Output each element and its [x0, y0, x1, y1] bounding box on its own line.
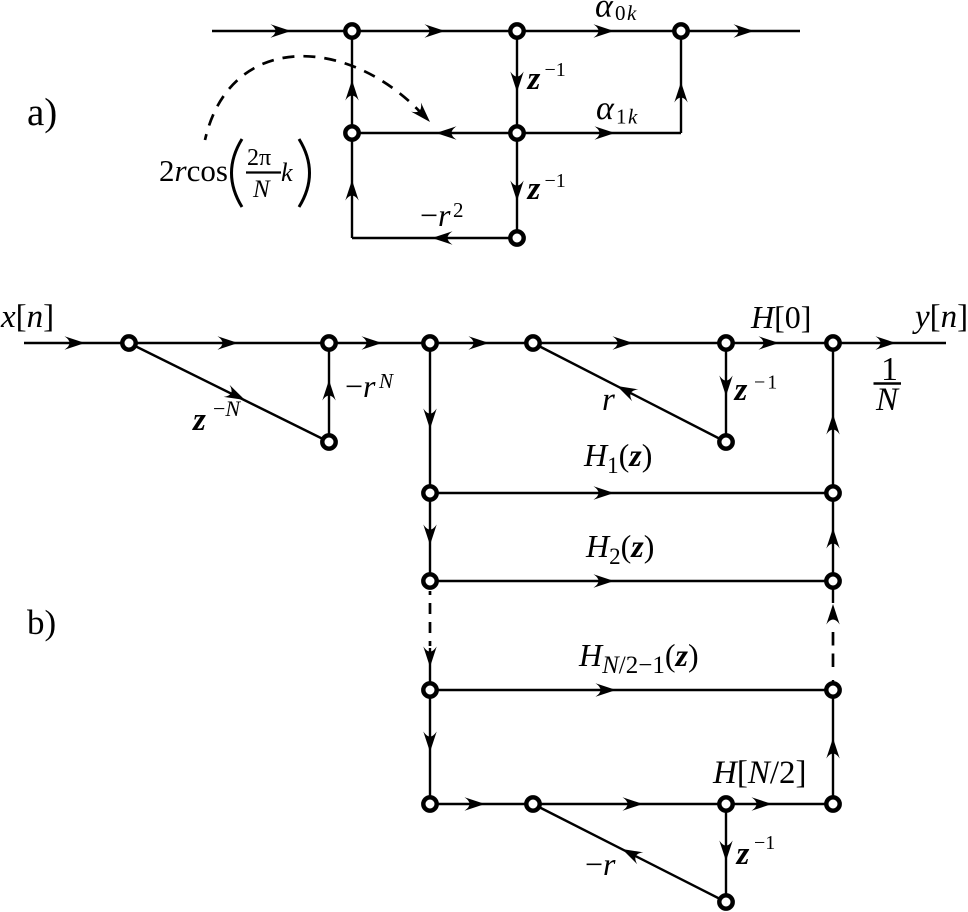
node b9 (H1 input): [423, 486, 436, 499]
svg-text:b): b): [27, 603, 56, 642]
node b15 (bottom row left): [423, 797, 436, 810]
node b13 (H_{N/2-1} input): [423, 683, 436, 696]
svg-text:z: z: [736, 836, 750, 872]
svg-text:2π: 2π: [247, 145, 271, 171]
wire: left column H1 to H2: [423, 493, 436, 581]
dashed coefficient pointer arc: [205, 56, 435, 140]
node b7 (z^-N delay output): [322, 435, 335, 448]
wire: main horizontal line of (b): [24, 336, 946, 349]
svg-text:−N: −N: [213, 396, 241, 421]
svg-text:z: z: [734, 372, 748, 408]
svg-text:−r: −r: [420, 197, 451, 233]
svg-text:H[0]: H[0]: [750, 299, 811, 335]
wire: vertical z^-1 branch (H[0] section): [719, 343, 732, 442]
wire: left column H_{N/2-1} to bottom row: [423, 690, 436, 804]
svg-text:α: α: [596, 90, 615, 127]
wire: vertical left corner up to D: [345, 133, 358, 238]
svg-text:−1: −1: [754, 372, 779, 394]
svg-text:α: α: [595, 0, 614, 25]
wire: vertical B to E (z^-1 branch): [510, 31, 523, 133]
svg-text:2rcos: 2rcos: [159, 153, 228, 188]
svg-text:z: z: [527, 61, 541, 97]
node b1 (input node): [122, 336, 135, 349]
node B: [510, 24, 523, 37]
wire: right column H2 to H1: [826, 493, 839, 581]
svg-text:H[N/2]: H[N/2]: [712, 755, 807, 791]
coefficient label 2rcos(2pi/N k): [159, 139, 310, 207]
wire: bottom row (H[N/2] section): [430, 797, 833, 810]
node b16 (H[N/2] resonator input): [526, 797, 539, 810]
svg-text:HN/2−1(z): HN/2−1(z): [578, 637, 699, 679]
node b11 (H2 input): [423, 574, 436, 587]
wire: right column dashed continuation above H_{N/2-1}: [826, 581, 839, 690]
svg-text:−r: −r: [345, 368, 376, 404]
wire: vertical D up to A: [345, 31, 358, 133]
node b8 (H0 delay output): [719, 435, 732, 448]
wire: left column dashed continuation below H2: [423, 591, 436, 690]
wire: vertical E to F (second z^-1 branch): [510, 133, 523, 238]
svg-text:H2(z): H2(z): [585, 528, 654, 569]
node b17 (H[N/2] sum node): [719, 797, 732, 810]
wire: right column bottom row up to H_{N/2-1}: [826, 690, 839, 804]
svg-text:2: 2: [453, 198, 464, 222]
wire: z^-N diagonal branch: [129, 343, 329, 442]
wire: vertical z^-1 branch (H[N/2] section): [719, 804, 732, 902]
svg-text:y[n]: y[n]: [912, 299, 968, 335]
svg-text:N: N: [875, 382, 900, 418]
node b2 (comb sum node): [322, 336, 335, 349]
wire: vertical -r^N branch up: [322, 343, 335, 442]
node b5 (H0 sum node): [719, 336, 732, 349]
node b3 (left column top): [423, 336, 436, 349]
wire: right column from H1 row up to main line: [826, 343, 839, 493]
wire: left column from main line down to H1 row: [423, 343, 436, 493]
svg-text:a): a): [27, 91, 57, 134]
wire: -r diagonal branch (bottom): [533, 804, 726, 902]
wire: H2 row: [430, 574, 833, 587]
svg-text:−1: −1: [754, 832, 775, 854]
node b10 (H1 output): [826, 486, 839, 499]
svg-text:x[n]: x[n]: [0, 299, 54, 335]
node E: [510, 126, 523, 139]
svg-text:H1(z): H1(z): [583, 437, 652, 478]
node D: [345, 126, 358, 139]
node b12 (H2 output): [826, 574, 839, 587]
node A: [345, 24, 358, 37]
svg-text:z: z: [527, 171, 541, 207]
node b14 (H_{N/2-1} output): [826, 683, 839, 696]
svg-text:0k: 0k: [615, 1, 638, 25]
node b4 (H0 resonator input): [526, 336, 539, 349]
node C: [674, 24, 687, 37]
wire: vertical right corner up to C: [674, 31, 687, 133]
label 1/N (output gain): [874, 351, 902, 418]
wire: top horizontal line of (a): [212, 24, 800, 37]
node b18 (bottom row right): [826, 797, 839, 810]
wire: H_{N/2-1} row: [430, 683, 833, 696]
svg-text:z: z: [192, 402, 206, 438]
wire: H1 row: [430, 486, 833, 499]
svg-text:−1: −1: [545, 170, 566, 192]
wire: middle horizontal line D-E and to right corner: [352, 126, 681, 139]
svg-text:k: k: [281, 158, 293, 187]
svg-text:−1: −1: [545, 59, 566, 81]
wire: r diagonal branch: [533, 343, 726, 442]
node b6 (output column top): [826, 336, 839, 349]
svg-text:−r: −r: [585, 846, 616, 882]
wire: bottom feedback line F to left corner (-r^2 branch): [352, 231, 517, 244]
svg-text:N: N: [378, 369, 394, 393]
svg-text:N: N: [252, 176, 271, 203]
svg-text:r: r: [602, 382, 615, 418]
node F: [510, 231, 523, 244]
node b19 (H[N/2] delay output): [719, 895, 732, 908]
svg-text:1k: 1k: [616, 105, 639, 129]
